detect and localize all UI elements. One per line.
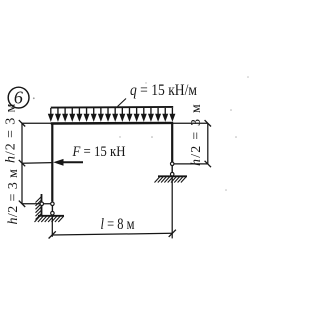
svg-text:h/2 = 3 м: h/2 = 3 м xyxy=(189,103,204,166)
svg-text:l = 8 м: l = 8 м xyxy=(101,216,135,233)
svg-text:q = 15 кН/м: q = 15 кН/м xyxy=(130,82,197,99)
svg-text:h/2 = 3 м: h/2 = 3 м xyxy=(4,103,19,163)
svg-text:F = 15 кН: F = 15 кН xyxy=(72,144,126,160)
svg-text:h/2 = 3 м: h/2 = 3 м xyxy=(6,169,21,225)
